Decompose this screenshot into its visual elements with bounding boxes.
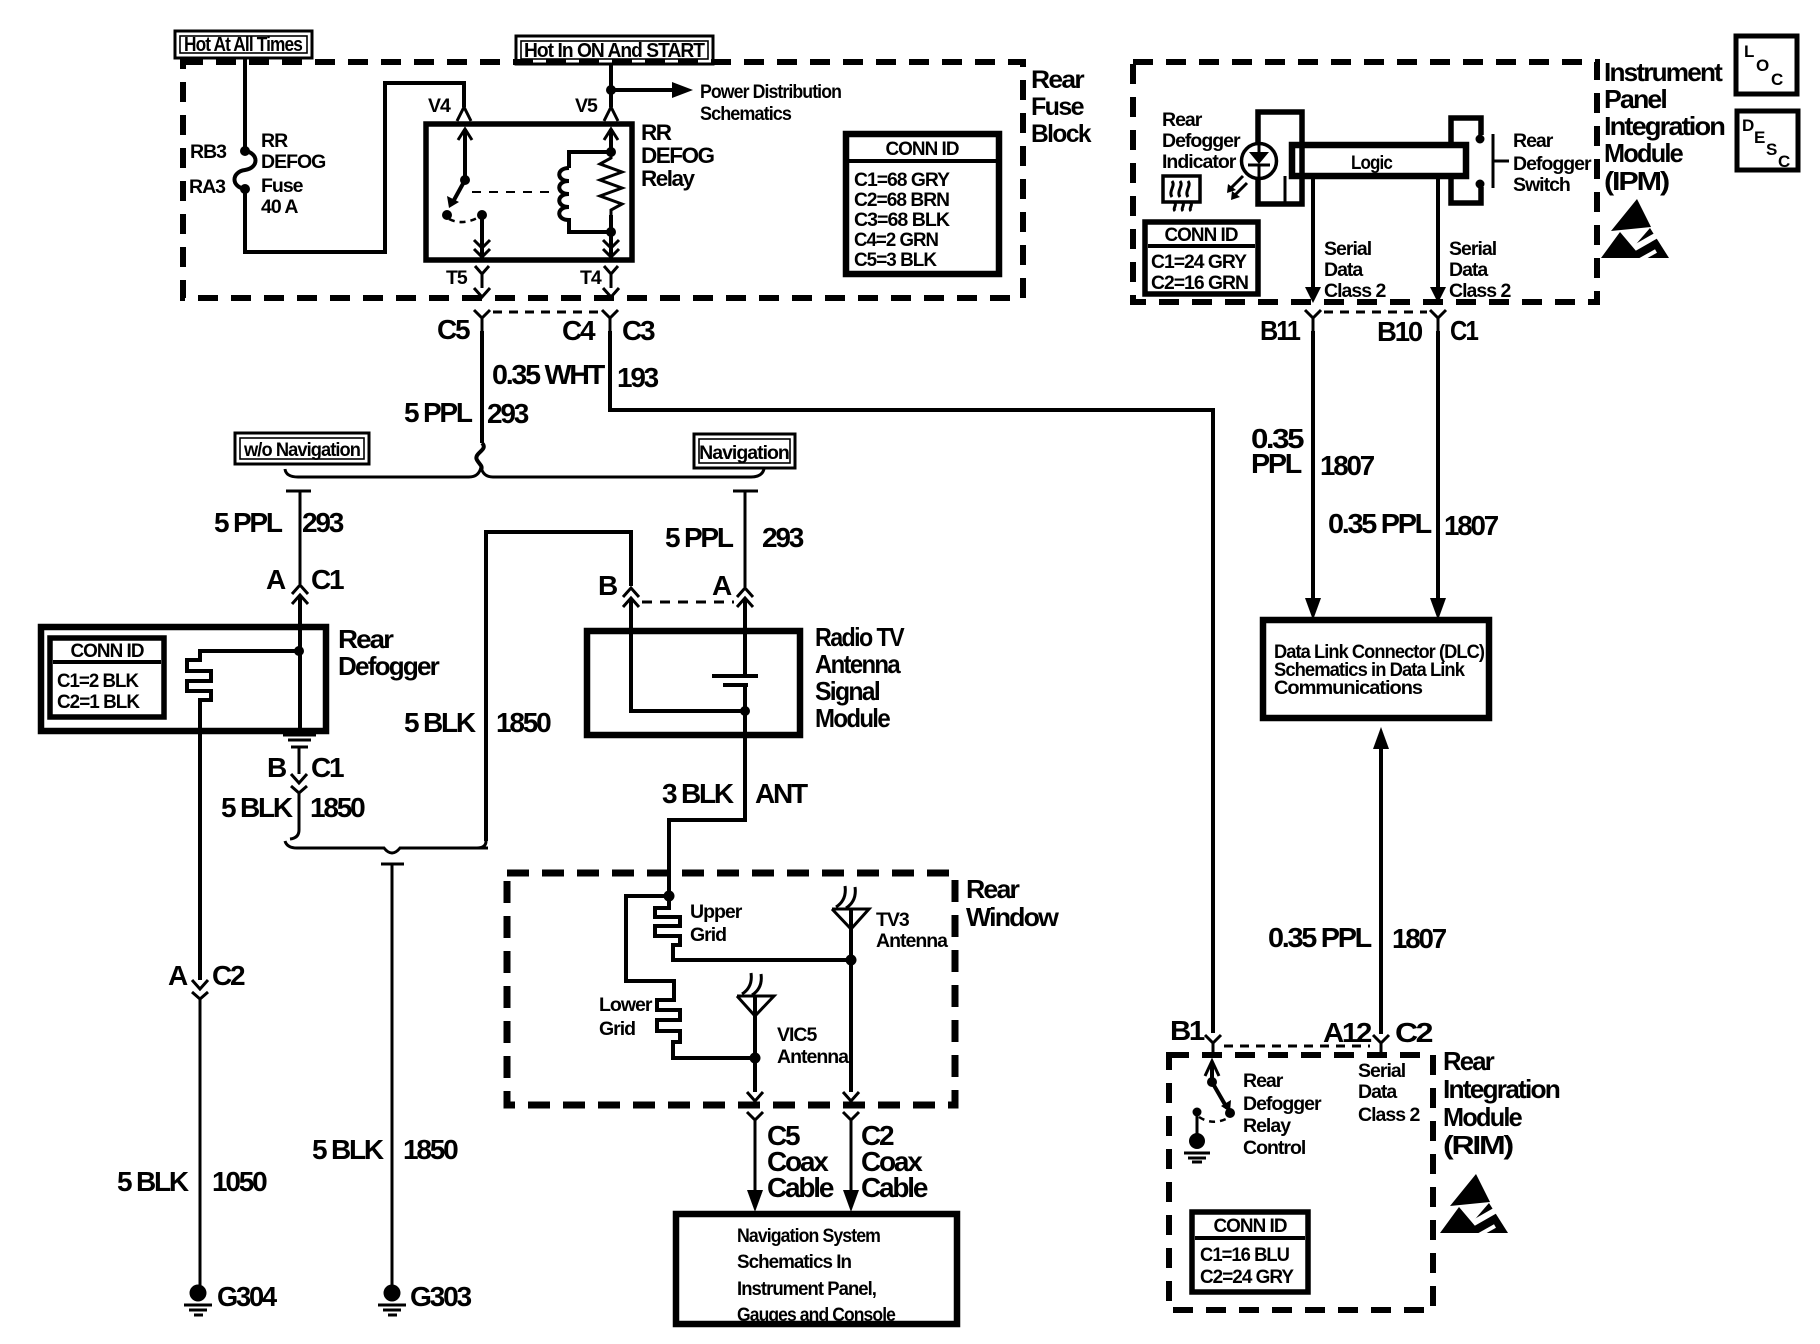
IPM dashed enclosure	[1133, 62, 1597, 302]
connector boundary dotted B1-A12	[1224, 1045, 1370, 1048]
svg-text:5 BLK: 5 BLK	[117, 1166, 189, 1197]
svg-text:C4: C4	[562, 315, 596, 346]
svg-text:V4: V4	[428, 95, 451, 117]
svg-text:C: C	[1778, 152, 1790, 171]
CONN ID table (rear defogger)	[50, 638, 164, 717]
svg-text:Rear: Rear	[1031, 66, 1085, 94]
ESD warning symbol (RIM)	[1440, 1174, 1508, 1237]
svg-text:A: A	[266, 564, 286, 595]
wire 1807 A12 up to DLC	[1268, 727, 1447, 1034]
connector boundary dotted B11-B10	[1324, 311, 1427, 314]
Rear Window dashed enclosure	[507, 873, 955, 1105]
connector T4	[580, 266, 619, 297]
connector V4 (fork toward relay)	[428, 95, 471, 121]
connector A / C2	[168, 960, 245, 1286]
label box: Navigation	[694, 434, 795, 468]
connector B11	[1260, 310, 1321, 346]
label 5 BLK / 1850 (radio ground wire)	[404, 707, 551, 738]
svg-text:C2=1 BLK: C2=1 BLK	[57, 691, 140, 713]
svg-text:DEFOG: DEFOG	[261, 151, 325, 173]
svg-text:Radio TV: Radio TV	[815, 622, 905, 652]
svg-text:Antenna: Antenna	[815, 649, 901, 679]
relay box RR DEFOG Relay	[426, 124, 632, 260]
wire 3 BLK ANT down to rear window	[669, 735, 745, 896]
Rear Defogger box	[41, 627, 326, 731]
svg-text:Gauges and Console: Gauges and Console	[737, 1304, 896, 1326]
svg-text:A: A	[712, 570, 732, 601]
svg-text:Power Distribution: Power Distribution	[700, 81, 841, 103]
connector B (radio module)	[598, 570, 639, 632]
svg-text:1850: 1850	[496, 707, 551, 738]
svg-text:Antenna: Antenna	[777, 1046, 849, 1068]
svg-text:B: B	[267, 752, 286, 783]
Rear Window label	[966, 874, 1060, 932]
svg-text:Rear: Rear	[1513, 130, 1554, 152]
svg-text:Switch: Switch	[1513, 174, 1570, 196]
svg-text:Class 2: Class 2	[1358, 1104, 1420, 1126]
svg-text:C3: C3	[622, 315, 655, 346]
node: antenna feed	[664, 891, 675, 902]
svg-text:G304: G304	[217, 1281, 278, 1312]
svg-text:ANT: ANT	[755, 778, 808, 809]
svg-text:Cable: Cable	[861, 1172, 928, 1203]
wire 1850 from B up over to ground bus	[486, 532, 631, 841]
w/o Navigation branch top bar	[286, 491, 311, 584]
connector C2 coax	[861, 1120, 928, 1203]
svg-text:D: D	[1742, 116, 1754, 135]
connector A / C1 (rear defogger)	[266, 564, 344, 628]
svg-text:CONN ID: CONN ID	[1165, 224, 1239, 246]
svg-text:Hot In ON And START: Hot In ON And START	[524, 40, 705, 62]
svg-text:Hot At All Times: Hot At All Times	[184, 34, 303, 56]
Rear Defogger label	[338, 624, 440, 681]
svg-text:5 BLK: 5 BLK	[312, 1134, 384, 1165]
svg-text:Fuse: Fuse	[261, 175, 304, 197]
svg-text:Defogger: Defogger	[1243, 1093, 1322, 1115]
svg-text:C: C	[1771, 70, 1783, 89]
node: defogger feed	[294, 628, 304, 731]
svg-text:Grid: Grid	[599, 1018, 635, 1040]
LED indicator lamp U-rect	[1258, 112, 1302, 204]
label 0.35 WHT / 193	[492, 359, 659, 393]
svg-text:Block: Block	[1031, 120, 1092, 148]
LOC reference box	[1736, 36, 1797, 94]
svg-text:Data: Data	[1358, 1081, 1397, 1103]
ground G303	[378, 1281, 472, 1315]
svg-text:C1=68 GRY: C1=68 GRY	[854, 169, 950, 191]
svg-text:Data: Data	[1324, 259, 1363, 281]
svg-text:V5: V5	[575, 95, 598, 117]
svg-text:Control: Control	[1243, 1137, 1306, 1159]
CONN ID table (RIM)	[1192, 1212, 1308, 1292]
svg-text:5 BLK: 5 BLK	[221, 792, 293, 823]
connector C5 (below fuse block)	[437, 310, 490, 345]
connector C5 coax	[767, 1120, 834, 1203]
svg-text:Schematics: Schematics	[700, 103, 792, 125]
svg-text:RB3: RB3	[190, 141, 227, 163]
serial data wire B10 (inside IPM)	[1430, 176, 1511, 303]
svg-text:Indicator: Indicator	[1162, 151, 1237, 173]
svg-text:A12: A12	[1323, 1017, 1372, 1048]
svg-text:Navigation: Navigation	[699, 442, 789, 464]
svg-text:Schematics In: Schematics In	[737, 1251, 851, 1273]
svg-text:TV3: TV3	[876, 909, 910, 931]
svg-text:(RIM): (RIM)	[1443, 1130, 1513, 1160]
connector B10 / C1	[1377, 310, 1478, 347]
svg-text:C3=68 BLK: C3=68 BLK	[854, 209, 950, 231]
svg-text:Class 2: Class 2	[1324, 280, 1386, 302]
svg-text:C1=16 BLU: C1=16 BLU	[1200, 1244, 1289, 1266]
svg-text:1850: 1850	[403, 1134, 458, 1165]
CONN ID table (IPM)	[1145, 222, 1258, 294]
ground merge brace	[285, 830, 488, 1286]
svg-text:0.35 PPL: 0.35 PPL	[1328, 508, 1432, 539]
svg-text:5 PPL: 5 PPL	[404, 397, 473, 428]
label box: w/o Navigation	[235, 433, 369, 464]
svg-text:Data: Data	[1449, 259, 1488, 281]
relay coil resistor	[600, 152, 622, 215]
relay V5 internal wire with nodes	[603, 129, 619, 259]
label 5 PPL / 293 (nav)	[665, 522, 804, 553]
connector B / C1 (defogger ground side)	[267, 735, 344, 830]
svg-text:5 PPL: 5 PPL	[214, 507, 283, 538]
svg-text:Upper: Upper	[690, 901, 743, 923]
svg-text:5 PPL: 5 PPL	[665, 522, 734, 553]
wire 193 from C4/C3 across to RIM B1	[610, 331, 1213, 1033]
svg-text:Defogger: Defogger	[338, 651, 440, 681]
svg-text:Defogger: Defogger	[1513, 153, 1592, 175]
fuse RR DEFOG 40A	[235, 146, 256, 194]
svg-text:RR: RR	[261, 130, 288, 152]
Rear Defogger Indicator label	[1162, 109, 1241, 173]
svg-text:C1=2 BLK: C1=2 BLK	[57, 670, 139, 692]
Navigation branch top bar	[733, 491, 758, 587]
svg-text:A: A	[168, 960, 188, 991]
svg-text:1807: 1807	[1444, 510, 1499, 541]
svg-text:0.35 WHT: 0.35 WHT	[492, 359, 605, 390]
svg-text:C5: C5	[437, 314, 470, 345]
connector V5 (fork toward relay)	[575, 95, 618, 121]
option split brace	[285, 467, 764, 477]
svg-text:Integration: Integration	[1604, 111, 1725, 141]
antenna coupler inside module	[631, 632, 758, 735]
svg-text:CONN ID: CONN ID	[886, 138, 960, 160]
svg-text:Module: Module	[815, 703, 890, 733]
svg-text:T5: T5	[446, 267, 468, 289]
RIM label	[1443, 1046, 1560, 1160]
svg-text:293: 293	[762, 522, 804, 553]
svg-text:Navigation System: Navigation System	[737, 1225, 881, 1247]
relay switch arm	[442, 129, 490, 259]
Data Link Connector box	[1263, 620, 1489, 718]
svg-text:Cable: Cable	[767, 1172, 834, 1203]
label 5 BLK / 1850 (to G303)	[312, 1134, 458, 1165]
connector B1	[1170, 1015, 1221, 1057]
wire: Hot At All Times feed down to fuse	[243, 58, 247, 150]
svg-text:40 A: 40 A	[261, 196, 298, 218]
svg-text:Instrument Panel,: Instrument Panel,	[737, 1278, 877, 1300]
defog indicator icon	[1163, 176, 1200, 211]
svg-text:Serial: Serial	[1324, 238, 1372, 260]
svg-text:1807: 1807	[1320, 450, 1375, 481]
label 5 BLK / 1850 (defogger ground)	[221, 792, 365, 823]
VIC5 antenna	[737, 973, 849, 1068]
wire 293 from C5 down	[476, 331, 483, 470]
rear defogger switch contacts	[1476, 134, 1510, 189]
wire: Hot In ON And START down to V5	[609, 64, 613, 107]
wire 1807 B11 to DLC	[1251, 331, 1375, 620]
svg-text:E: E	[1754, 128, 1765, 147]
svg-text:Antenna: Antenna	[876, 930, 948, 952]
svg-text:Relay: Relay	[641, 166, 696, 191]
svg-text:5 BLK: 5 BLK	[404, 707, 476, 738]
connector boundary dotted line C5-C4	[493, 311, 599, 314]
svg-text:193: 193	[617, 362, 659, 393]
connector A (radio module)	[712, 570, 753, 632]
Radio TV Antenna Signal Module box	[587, 631, 800, 735]
svg-text:1850: 1850	[310, 792, 365, 823]
svg-text:G303: G303	[410, 1281, 472, 1312]
svg-text:RA3: RA3	[189, 176, 226, 198]
svg-text:0.35 PPL: 0.35 PPL	[1268, 922, 1372, 953]
svg-text:S: S	[1766, 140, 1777, 159]
svg-text:CONN ID: CONN ID	[71, 640, 145, 662]
lower grid element	[599, 896, 755, 1058]
LED emission arrows	[1227, 176, 1247, 200]
svg-text:C5=3 BLK: C5=3 BLK	[854, 249, 937, 271]
connector boundary dashed B-A	[642, 601, 734, 604]
svg-text:C2: C2	[212, 960, 245, 991]
serial data wire B11 (inside IPM)	[1305, 176, 1386, 303]
svg-text:DEFOG: DEFOG	[641, 143, 715, 168]
svg-text:293: 293	[302, 507, 344, 538]
svg-text:CONN ID: CONN ID	[1214, 1215, 1288, 1237]
svg-text:C4=2 GRN: C4=2 GRN	[854, 229, 938, 251]
LED circle and diode	[1242, 144, 1277, 179]
svg-text:C1: C1	[311, 564, 344, 595]
connector A12 / C2	[1323, 1017, 1433, 1057]
wire VIC5 down to nav box	[747, 1058, 763, 1212]
label 5 PPL / 293 (w/o nav)	[214, 507, 344, 538]
svg-text:C2=68 BRN: C2=68 BRN	[854, 189, 949, 211]
switch holder rect (right)	[1451, 118, 1481, 203]
svg-text:Rear: Rear	[1443, 1046, 1495, 1076]
label 5 PPL / 293	[404, 397, 529, 429]
upper grid element	[655, 896, 851, 960]
svg-text:Window: Window	[966, 902, 1060, 932]
svg-text:L: L	[1744, 42, 1754, 61]
wire 1807 C1 to DLC	[1328, 331, 1499, 620]
Rear Fuse Block label	[1031, 66, 1092, 148]
svg-text:Defogger: Defogger	[1162, 130, 1241, 152]
RIM dashed enclosure	[1169, 1055, 1433, 1310]
Logic block	[1285, 145, 1466, 202]
svg-text:Logic: Logic	[1351, 152, 1393, 174]
DESC reference box	[1737, 111, 1798, 171]
svg-text:Communications: Communications	[1274, 677, 1423, 699]
node: power distribution tap	[606, 85, 616, 95]
ground (relay control)	[1184, 1133, 1210, 1162]
CONN ID table (fuse block)	[846, 134, 999, 274]
svg-text:C1: C1	[311, 752, 344, 783]
svg-text:Panel: Panel	[1604, 84, 1667, 114]
svg-text:B: B	[598, 570, 617, 601]
svg-text:Module: Module	[1443, 1102, 1522, 1132]
wire arrow to Power Distribution Schematics	[611, 81, 841, 125]
IPM label	[1604, 57, 1725, 196]
svg-text:B11: B11	[1260, 315, 1300, 346]
rear defogger relay control switch	[1193, 1061, 1236, 1134]
svg-text:O: O	[1756, 56, 1769, 75]
relay mechanical link (dashed)	[472, 191, 556, 193]
connector T5	[446, 266, 490, 297]
label box: Hot At All Times	[175, 31, 312, 58]
svg-text:3 BLK: 3 BLK	[662, 778, 734, 809]
svg-text:Instrument: Instrument	[1604, 57, 1723, 87]
svg-text:293: 293	[487, 398, 529, 429]
module label	[815, 622, 905, 733]
svg-text:Serial: Serial	[1449, 238, 1497, 260]
svg-text:C2=24 GRY: C2=24 GRY	[1200, 1266, 1294, 1288]
svg-text:Lower: Lower	[599, 994, 653, 1016]
svg-text:Signal: Signal	[815, 676, 880, 706]
svg-text:VIC5: VIC5	[777, 1024, 818, 1046]
relay label	[641, 120, 715, 191]
svg-text:B1: B1	[1170, 1015, 1205, 1046]
svg-text:Integration: Integration	[1443, 1074, 1560, 1104]
TV3 antenna	[832, 886, 948, 966]
svg-text:1807: 1807	[1392, 923, 1447, 954]
svg-text:C2: C2	[1395, 1017, 1433, 1048]
svg-text:PPL: PPL	[1251, 448, 1302, 479]
Serial Data Class 2 label (RIM)	[1358, 1060, 1420, 1126]
svg-text:w/o Navigation: w/o Navigation	[243, 439, 360, 461]
svg-text:Grid: Grid	[690, 924, 726, 946]
wire: fuse to V4 terminal	[245, 83, 464, 252]
svg-text:Module: Module	[1604, 138, 1683, 168]
ground G304	[184, 1281, 278, 1315]
svg-text:Class 2: Class 2	[1449, 280, 1511, 302]
Rear Fuse Block dashed enclosure	[183, 62, 1023, 298]
svg-text:RR: RR	[641, 120, 672, 145]
svg-text:C2=16 GRN: C2=16 GRN	[1151, 272, 1248, 294]
defogger grid element	[187, 651, 299, 731]
svg-text:B10: B10	[1377, 316, 1423, 347]
svg-text:Serial: Serial	[1358, 1060, 1406, 1082]
label box: Hot In ON And START	[516, 36, 713, 64]
svg-text:Rear: Rear	[966, 874, 1020, 904]
Rear Defogger Switch label	[1513, 130, 1592, 196]
svg-text:Relay: Relay	[1243, 1115, 1291, 1137]
Navigation System schematics box	[676, 1214, 957, 1326]
svg-text:Rear: Rear	[1162, 109, 1203, 131]
ESD warning symbol (IPM)	[1601, 199, 1669, 262]
connector C4/C3	[562, 310, 655, 346]
label 3 BLK / ANT	[662, 778, 808, 809]
svg-text:Fuse: Fuse	[1031, 93, 1085, 121]
svg-text:1050: 1050	[212, 1166, 267, 1197]
wire TV3 down to nav box	[843, 960, 859, 1212]
svg-text:T4: T4	[580, 267, 602, 289]
svg-text:Rear: Rear	[338, 624, 394, 654]
svg-text:C1: C1	[1450, 315, 1478, 346]
wire: defogger grid to G304	[198, 731, 202, 980]
relay coil	[559, 152, 611, 232]
svg-text:C1=24 GRY: C1=24 GRY	[1151, 251, 1247, 273]
svg-text:Rear: Rear	[1243, 1070, 1284, 1092]
fuse labels	[189, 130, 325, 218]
svg-text:(IPM): (IPM)	[1604, 166, 1669, 196]
label 5 BLK / 1050	[117, 1166, 267, 1197]
Rear Defogger Relay Control label	[1243, 1070, 1322, 1159]
